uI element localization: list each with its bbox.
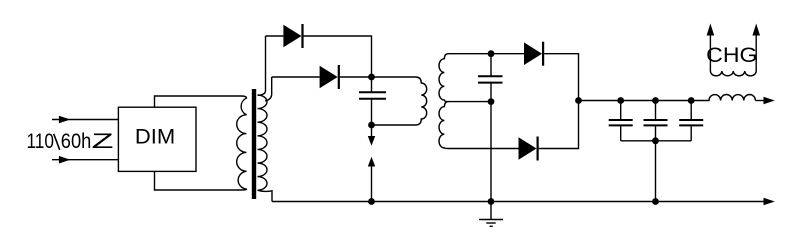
arrow gap down	[368, 125, 375, 146]
wire DC bus	[579, 100, 692, 102]
capacitor C2	[478, 54, 503, 102]
node B junction	[368, 122, 375, 129]
wire D1 cathode to node A	[304, 36, 372, 77]
wire node A to L1 top	[372, 76, 416, 78]
node F junction	[617, 97, 624, 104]
capacitor C4	[644, 101, 668, 141]
svg-text:60h: 60h	[61, 130, 92, 153]
wire T1 secondary bottom lead to rail	[258, 190, 273, 201]
wire center tap to ground rail	[490, 102, 492, 202]
CHG load arrow left	[707, 24, 715, 72]
wire node I to rail	[655, 141, 657, 202]
transformer T2 secondary lower winding	[439, 102, 449, 149]
node H junction	[688, 97, 695, 104]
wire T2 lower to D4	[449, 148, 519, 150]
input arrow top	[52, 116, 118, 124]
wire capacitor bank bottom	[621, 140, 692, 142]
output arrow bottom	[764, 198, 775, 206]
diode D3	[524, 42, 543, 66]
transformer T1 core	[252, 89, 256, 199]
transformer T2 secondary upper winding	[439, 54, 491, 102]
diode D4	[519, 137, 538, 161]
diode D1	[283, 24, 302, 48]
svg-text:Z: Z	[92, 130, 114, 153]
inductor L1 coupling winding	[416, 77, 427, 125]
svg-text:DIM: DIM	[135, 125, 175, 148]
node A junction	[368, 74, 375, 81]
node C junction	[488, 50, 495, 57]
wire T1 secondary tap lead	[265, 77, 272, 101]
wire L1 bottom to node B	[372, 124, 416, 126]
arrow gap up	[368, 157, 375, 202]
wire DIM bottom to primary	[155, 171, 242, 190]
svg-text:110: 110	[27, 130, 55, 153]
inductor L2	[691, 94, 755, 100]
block U1 DIM	[118, 107, 196, 171]
wire D2 cathode to node A	[340, 76, 372, 78]
capacitor C3	[609, 101, 633, 141]
wire node C to D3	[491, 53, 524, 55]
node D junction (center tap)	[488, 98, 495, 105]
CHG load arrow right	[752, 24, 760, 72]
node rail junction 1	[368, 198, 375, 205]
node rail junction 2	[488, 198, 495, 205]
node rail junction 3	[652, 198, 659, 205]
CHG load scalloped bottom	[710, 71, 756, 76]
input arrow bottom	[52, 156, 118, 164]
capacitor C5	[679, 101, 703, 141]
node E junction	[575, 97, 582, 104]
transformer T1 primary winding	[237, 96, 247, 190]
wire T1 secondary top lead	[258, 36, 266, 95]
output arrow top	[755, 97, 774, 105]
transformer T1 secondary winding	[258, 95, 268, 190]
wire DIM top to primary	[155, 96, 242, 107]
node I junction	[652, 137, 659, 144]
wire D4 cathode to node E	[539, 101, 579, 149]
capacitor C1	[359, 77, 386, 125]
ground	[479, 202, 503, 227]
node G junction	[652, 97, 659, 104]
wire bottom rail	[272, 201, 764, 203]
wire D3 cathode to node E	[544, 54, 578, 101]
wire top branch	[266, 35, 284, 37]
diode D2	[320, 65, 339, 89]
svg-text:CHG: CHG	[706, 43, 757, 67]
wire second branch	[272, 76, 320, 78]
